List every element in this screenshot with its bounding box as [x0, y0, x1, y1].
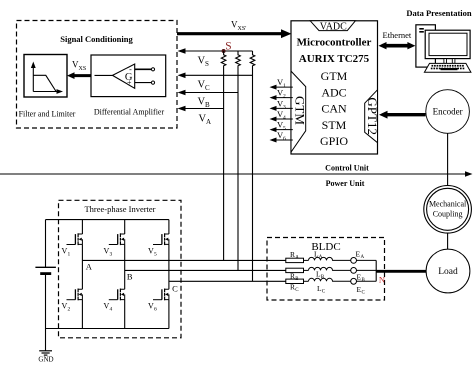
svg-text:XS′: XS′ — [238, 26, 248, 32]
svg-text:VADC: VADC — [320, 21, 347, 32]
svg-text:Signal Conditioning: Signal Conditioning — [60, 34, 133, 44]
load — [426, 249, 470, 293]
sense line VS with arrow into box — [178, 48, 253, 68]
svg-text:A: A — [361, 255, 365, 260]
encoder — [426, 90, 470, 134]
svg-text:4: 4 — [110, 307, 113, 313]
PWM signal wire V3 from GTM — [270, 98, 293, 111]
svg-text:GPT12: GPT12 — [365, 97, 380, 135]
shunt resistor on phase A — [221, 51, 226, 68]
shunt resistor on phase C — [250, 51, 255, 68]
svg-text:AURIX TC275: AURIX TC275 — [299, 53, 370, 65]
svg-text:Ethernet: Ethernet — [383, 30, 412, 40]
svg-text:A: A — [206, 118, 211, 126]
PWM signal wire V5 from GTM — [270, 120, 293, 133]
shunt resistor on phase B — [236, 51, 241, 68]
svg-text:A: A — [319, 255, 323, 260]
computer keyboard — [424, 63, 471, 72]
three-phase inverter dashed box — [59, 200, 182, 337]
inverter leg 3 wire — [168, 220, 170, 329]
svg-text:C: C — [205, 84, 210, 92]
svg-text:GTM: GTM — [321, 69, 348, 83]
shaft coupling to load — [447, 233, 449, 249]
battery riser top — [45, 220, 47, 268]
sense line VB — [178, 90, 239, 109]
svg-text:R: R — [290, 250, 295, 259]
signal conditioning dashed box — [17, 21, 178, 129]
sense line VC — [178, 73, 253, 93]
ground — [39, 351, 52, 355]
svg-text:Filter and Limiter: Filter and Limiter — [19, 110, 76, 119]
back-EMF source EA — [332, 259, 351, 261]
svg-text:N: N — [379, 274, 385, 284]
svg-text:-: - — [129, 65, 132, 74]
svg-text:A: A — [86, 262, 93, 272]
svg-text:Three-phase Inverter: Three-phase Inverter — [84, 204, 155, 214]
svg-text:5: 5 — [283, 126, 286, 132]
battery B1 — [35, 266, 56, 268]
inverter leg 1 wire — [81, 220, 83, 329]
thick arrow encoder to GPT12 — [379, 111, 426, 119]
back-EMF source EC — [332, 280, 351, 282]
transistor V4 — [109, 289, 125, 301]
GPT12 port trapezoid — [365, 90, 378, 143]
stator inductor LA — [304, 259, 309, 261]
svg-text:GPIO: GPIO — [320, 134, 348, 148]
svg-text:B: B — [205, 101, 210, 109]
svg-text:Power Unit: Power Unit — [326, 179, 365, 188]
svg-text:3: 3 — [283, 104, 286, 110]
svg-text:3: 3 — [110, 252, 113, 258]
PWM signal wire V1 from GTM — [270, 77, 293, 90]
phase C line — [169, 280, 286, 282]
svg-text:C: C — [172, 284, 178, 294]
transistor V3 — [109, 233, 125, 245]
microcontroller U1 box — [291, 21, 378, 154]
svg-text:Coupling: Coupling — [433, 209, 463, 218]
transistor V2 — [67, 289, 83, 301]
svg-text:6: 6 — [283, 136, 286, 142]
control/power unit divider — [0, 163, 473, 188]
DC bus bottom — [46, 328, 169, 330]
BLDC dashed box — [267, 238, 385, 301]
GTM port trapezoid — [291, 71, 306, 152]
shaft encoder to coupling — [447, 133, 449, 185]
svg-text:CAN: CAN — [321, 102, 347, 116]
svg-text:XS: XS — [79, 66, 87, 72]
mechanical coupling — [424, 186, 472, 234]
svg-text:2: 2 — [283, 94, 286, 100]
svg-text:Differential Amplifier: Differential Amplifier — [94, 108, 165, 117]
svg-text:S: S — [225, 40, 231, 52]
svg-text:Control Unit: Control Unit — [325, 163, 369, 172]
svg-text:4: 4 — [283, 115, 286, 121]
DC bus top — [46, 219, 169, 221]
stator resistor RA — [286, 258, 304, 262]
stator resistor RB — [286, 268, 304, 272]
computer monitor — [425, 30, 470, 63]
svg-text:2: 2 — [68, 307, 71, 313]
svg-text:5: 5 — [154, 252, 157, 258]
PWM signal wire V2 from GTM — [270, 88, 293, 101]
svg-text:A: A — [295, 256, 299, 261]
back-EMF source EB — [332, 269, 351, 271]
stator inductor LB — [304, 269, 309, 271]
PWM signal wire V6 from GTM — [270, 130, 293, 143]
svg-text:Mechanical: Mechanical — [429, 199, 467, 208]
svg-text:GTM: GTM — [293, 96, 308, 125]
svg-text:STM: STM — [322, 118, 347, 132]
computer tower — [416, 25, 436, 67]
stator resistor RC — [286, 279, 304, 283]
svg-text:Microcontroller: Microcontroller — [297, 37, 372, 49]
svg-text:Data Presentation: Data Presentation — [406, 8, 472, 18]
ground stem — [45, 329, 47, 351]
thick arrow VXS from amplifier to filter — [67, 60, 91, 80]
differential amplifier block — [91, 55, 166, 117]
svg-text:1: 1 — [68, 252, 71, 258]
svg-text:B: B — [127, 272, 133, 282]
thick shaft line BLDC to load — [376, 270, 426, 273]
filter and limiter block — [19, 55, 76, 119]
thick arrow VXS' to microcontroller — [177, 20, 292, 39]
VADC port trapezoid — [310, 21, 355, 31]
phase B line — [125, 269, 286, 271]
svg-text:GND: GND — [38, 356, 53, 364]
svg-text:6: 6 — [154, 307, 157, 313]
svg-text:R: R — [290, 282, 295, 291]
battery riser bottom — [45, 274, 47, 329]
svg-text:ADC: ADC — [321, 85, 346, 99]
svg-text:S: S — [205, 60, 209, 68]
star point wire — [375, 260, 377, 281]
sense wire down to phase C — [252, 68, 254, 281]
svg-text:1: 1 — [283, 83, 286, 89]
sense wire down to phase B — [237, 68, 239, 270]
PWM signal wire V4 from GTM — [270, 109, 293, 122]
svg-text:Encoder: Encoder — [433, 107, 463, 117]
inverter leg 2 wire — [124, 220, 126, 329]
node S junction dot — [222, 49, 226, 53]
sense line VA — [178, 106, 224, 126]
phase A line — [82, 259, 285, 261]
svg-text:Load: Load — [438, 267, 458, 277]
transistor V1 — [67, 233, 83, 245]
stator inductor LC — [304, 280, 309, 282]
svg-text:+: + — [127, 78, 132, 87]
transistor V5 — [153, 233, 169, 245]
transistor V6 — [153, 289, 169, 301]
sense wire down to phase A — [223, 68, 225, 260]
ethernet double arrow — [379, 30, 416, 50]
